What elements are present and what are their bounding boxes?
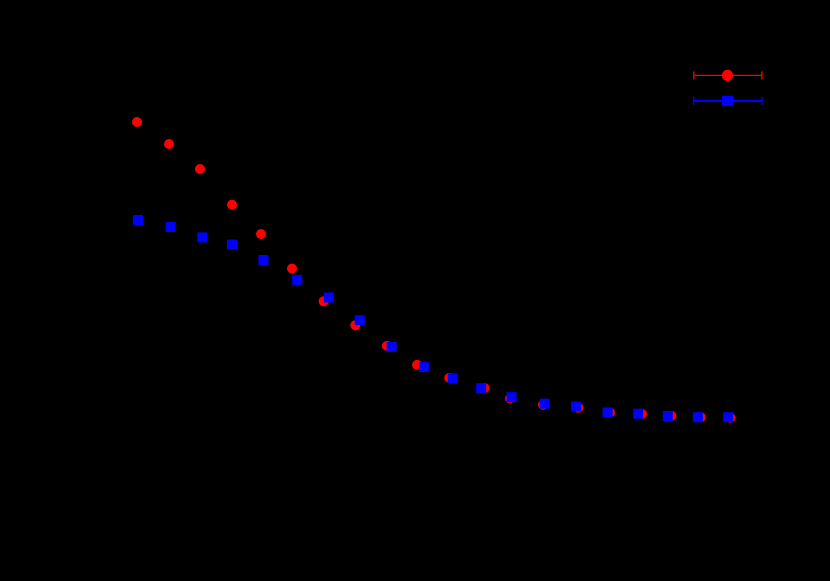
red point 11 (444, 373, 454, 383)
blue data series (squares, drawn on top) (133, 215, 733, 422)
red point 2 (164, 139, 174, 149)
red point 15 (574, 403, 584, 413)
red point 10 (412, 360, 422, 370)
blue point 18 (663, 411, 673, 421)
blue point 2 (166, 222, 176, 232)
red point 17 (637, 409, 647, 419)
red point 16 (605, 408, 615, 418)
blue point 13 (507, 392, 517, 402)
legend: blue errorbar sample (694, 96, 762, 106)
blue point 8 (355, 315, 365, 325)
blue point 4 (227, 240, 237, 250)
legend red horizontal line (694, 74, 762, 76)
blue point 10 (419, 362, 429, 372)
blue point 5 (258, 255, 268, 265)
legend blue left cap (693, 97, 695, 106)
blue point 15 (571, 402, 581, 412)
legend red left cap (693, 71, 695, 79)
red point 13 (505, 394, 515, 404)
red point 5 (256, 229, 266, 239)
red point 12 (480, 383, 490, 393)
red point 8 (350, 320, 360, 330)
legend red right cap (761, 71, 763, 79)
blue point 9 (387, 342, 397, 352)
blue point 14 (540, 399, 550, 409)
red point 20 (726, 413, 736, 423)
blue point 19 (693, 412, 703, 422)
legend blue horizontal line (694, 100, 762, 102)
red point 19 (696, 412, 706, 422)
blue point 3 (197, 232, 207, 242)
red point 4 (227, 200, 237, 210)
legend red circle marker (722, 70, 733, 81)
blue point 20 (723, 412, 733, 422)
red data series (circles, drawn under blue squares) (132, 117, 736, 423)
blue point 6 (292, 275, 302, 285)
blue point 12 (476, 383, 486, 393)
red point 9 (382, 341, 392, 351)
blue point 16 (603, 407, 613, 417)
blue point 17 (633, 409, 643, 419)
legend blue square marker (722, 96, 733, 106)
legend blue right cap (761, 97, 763, 106)
legend: red errorbar sample (694, 70, 762, 81)
red point 14 (538, 400, 548, 410)
red point 7 (319, 296, 329, 306)
red point 1 (132, 117, 142, 127)
blue point 1 (133, 215, 143, 225)
blue point 11 (448, 373, 458, 383)
red point 18 (667, 411, 677, 421)
blue point 7 (324, 293, 334, 303)
red point 3 (195, 164, 205, 174)
red point 6 (287, 264, 297, 274)
